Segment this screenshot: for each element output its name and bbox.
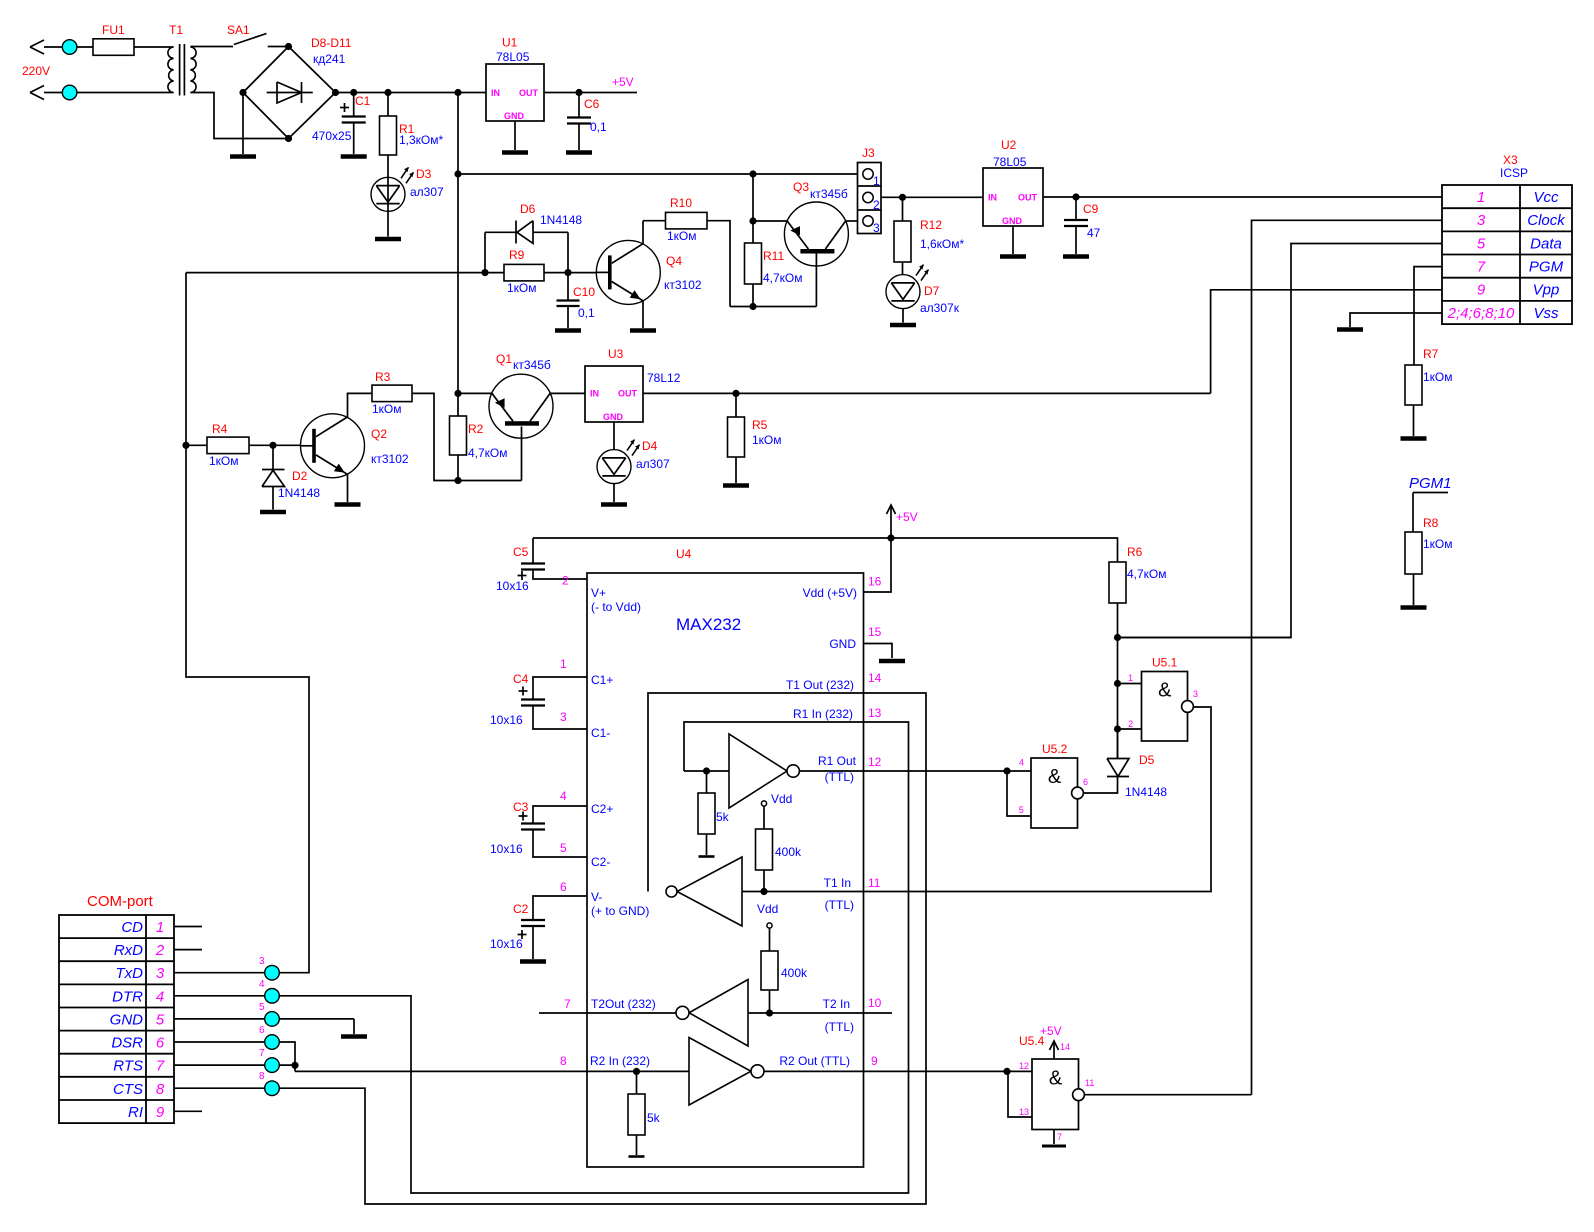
- svg-text:470x25: 470x25: [312, 129, 352, 143]
- svg-text:OUT: OUT: [519, 88, 539, 98]
- svg-text:IN: IN: [988, 192, 997, 202]
- svg-text:ICSP: ICSP: [1500, 166, 1528, 180]
- svg-text:2: 2: [1128, 719, 1133, 729]
- svg-text:GND: GND: [603, 412, 624, 422]
- svg-text:+5V: +5V: [896, 510, 918, 524]
- svg-text:DTR: DTR: [112, 988, 143, 1005]
- svg-text:12: 12: [868, 755, 882, 769]
- svg-text:6: 6: [156, 1035, 165, 1052]
- svg-text:кт3102: кт3102: [371, 452, 409, 466]
- svg-text:1кОм: 1кОм: [372, 402, 402, 416]
- svg-text:C1+: C1+: [591, 673, 613, 687]
- svg-text:GND: GND: [504, 111, 525, 121]
- svg-text:12: 12: [1019, 1061, 1029, 1071]
- svg-text:4,7кОм: 4,7кОм: [1127, 567, 1167, 581]
- svg-text:CTS: CTS: [113, 1081, 143, 1098]
- svg-text:RTS: RTS: [113, 1058, 143, 1075]
- svg-text:10x16: 10x16: [490, 842, 523, 856]
- svg-text:+5V: +5V: [1040, 1024, 1062, 1038]
- svg-text:C5: C5: [513, 545, 529, 559]
- svg-text:PGM: PGM: [1529, 259, 1564, 276]
- svg-text:COM-port: COM-port: [87, 893, 154, 910]
- svg-text:U5.2: U5.2: [1042, 742, 1068, 756]
- svg-text:4,7кОм: 4,7кОм: [763, 271, 803, 285]
- svg-text:3: 3: [156, 965, 165, 982]
- svg-text:Vdd: Vdd: [771, 792, 792, 806]
- svg-text:R7: R7: [1423, 347, 1439, 361]
- svg-text:C2-: C2-: [591, 855, 610, 869]
- svg-text:1N4148: 1N4148: [1125, 785, 1167, 799]
- svg-text:1кОм: 1кОм: [1423, 370, 1453, 384]
- svg-text:T1: T1: [169, 23, 183, 37]
- svg-text:+5V: +5V: [612, 75, 634, 89]
- svg-text:1: 1: [1477, 189, 1485, 206]
- svg-text:2: 2: [155, 942, 165, 959]
- svg-text:11: 11: [868, 876, 881, 890]
- svg-text:1N4148: 1N4148: [278, 486, 320, 500]
- svg-text:T2Out (232): T2Out (232): [591, 997, 656, 1011]
- svg-text:OUT: OUT: [1018, 192, 1038, 202]
- svg-text:SA1: SA1: [227, 23, 250, 37]
- svg-text:&: &: [1048, 766, 1062, 788]
- svg-text:0,1: 0,1: [590, 120, 607, 134]
- svg-text:C6: C6: [584, 97, 600, 111]
- svg-text:3: 3: [259, 956, 265, 967]
- svg-text:5: 5: [156, 1012, 165, 1029]
- svg-text:3: 3: [1477, 212, 1486, 229]
- svg-text:4: 4: [259, 979, 265, 990]
- svg-text:V+: V+: [591, 586, 606, 600]
- svg-text:GND: GND: [1002, 216, 1023, 226]
- svg-text:7: 7: [156, 1058, 165, 1075]
- svg-text:R6: R6: [1127, 545, 1143, 559]
- svg-text:C10: C10: [573, 285, 595, 299]
- svg-text:1: 1: [1128, 673, 1133, 683]
- svg-text:CD: CD: [121, 919, 143, 936]
- svg-text:V-: V-: [591, 890, 602, 904]
- svg-text:14: 14: [1060, 1042, 1070, 1052]
- svg-text:X3: X3: [1503, 153, 1518, 167]
- svg-text:R5: R5: [752, 418, 768, 432]
- svg-text:7: 7: [1057, 1132, 1062, 1142]
- svg-text:1кОм: 1кОм: [209, 454, 239, 468]
- svg-text:ал307к: ал307к: [920, 301, 960, 315]
- svg-text:78L05: 78L05: [993, 155, 1027, 169]
- svg-text:Vss: Vss: [1533, 305, 1559, 322]
- svg-text:D3: D3: [416, 167, 432, 181]
- svg-text:PGM1: PGM1: [1409, 475, 1452, 492]
- svg-text:D5: D5: [1139, 753, 1155, 767]
- svg-text:FU1: FU1: [102, 23, 125, 37]
- svg-text:13: 13: [868, 706, 882, 720]
- svg-text:OUT: OUT: [618, 388, 638, 398]
- svg-text:C3: C3: [513, 800, 529, 814]
- svg-text:R9: R9: [509, 248, 525, 262]
- svg-text:GND: GND: [110, 1012, 144, 1029]
- svg-text:D8-D11: D8-D11: [311, 36, 352, 50]
- svg-text:400k: 400k: [781, 966, 808, 980]
- svg-text:11: 11: [1085, 1078, 1094, 1088]
- svg-text:R8: R8: [1423, 516, 1439, 530]
- svg-text:0,1: 0,1: [578, 306, 595, 320]
- svg-text:4: 4: [156, 988, 164, 1005]
- svg-text:6: 6: [1083, 777, 1088, 787]
- svg-text:10: 10: [868, 996, 882, 1010]
- svg-text:(- to Vdd): (- to Vdd): [591, 600, 641, 614]
- svg-text:C2: C2: [513, 902, 529, 916]
- svg-text:GND: GND: [829, 637, 856, 651]
- svg-text:D6: D6: [520, 202, 536, 216]
- svg-text:78L05: 78L05: [496, 50, 530, 64]
- svg-text:RI: RI: [128, 1104, 143, 1121]
- svg-text:14: 14: [868, 671, 882, 685]
- svg-text:1кОм: 1кОм: [1423, 537, 1453, 551]
- svg-text:1: 1: [560, 657, 567, 671]
- svg-text:C1-: C1-: [591, 726, 610, 740]
- svg-text:D7: D7: [924, 284, 940, 298]
- svg-text:(TTL): (TTL): [825, 1020, 854, 1034]
- svg-text:4: 4: [1019, 758, 1024, 768]
- svg-text:R12: R12: [920, 218, 942, 232]
- svg-text:R1 Out: R1 Out: [818, 754, 857, 768]
- svg-text:3: 3: [560, 710, 567, 724]
- svg-text:7: 7: [259, 1048, 265, 1059]
- svg-text:Clock: Clock: [1527, 212, 1566, 229]
- svg-text:4: 4: [560, 789, 567, 803]
- svg-text:8: 8: [259, 1071, 265, 1082]
- svg-text:10x16: 10x16: [490, 713, 523, 727]
- svg-text:(TTL): (TTL): [825, 770, 854, 784]
- svg-text:7: 7: [564, 997, 571, 1011]
- svg-text:8: 8: [560, 1054, 567, 1068]
- svg-text:T2 In: T2 In: [823, 997, 850, 1011]
- svg-text:Vdd (+5V): Vdd (+5V): [803, 586, 857, 600]
- svg-text:R2 Out (TTL): R2 Out (TTL): [779, 1054, 850, 1068]
- svg-text:5: 5: [259, 1002, 265, 1013]
- svg-text:ал307: ал307: [636, 457, 670, 471]
- svg-text:U5.1: U5.1: [1152, 656, 1178, 670]
- svg-text:9: 9: [871, 1054, 878, 1068]
- svg-text:78L12: 78L12: [647, 371, 681, 385]
- svg-text:2: 2: [562, 574, 569, 588]
- svg-text:Q3: Q3: [793, 180, 809, 194]
- svg-text:5: 5: [1019, 805, 1024, 815]
- svg-text:C2+: C2+: [591, 802, 613, 816]
- svg-text:9: 9: [1477, 282, 1486, 299]
- svg-text:13: 13: [1019, 1107, 1029, 1117]
- svg-text:400k: 400k: [775, 845, 802, 859]
- svg-text:1: 1: [156, 919, 164, 936]
- svg-text:220V: 220V: [22, 64, 50, 78]
- svg-text:Q4: Q4: [666, 254, 682, 268]
- svg-text:7: 7: [1477, 259, 1486, 276]
- svg-text:R4: R4: [212, 422, 228, 436]
- svg-text:ал307: ал307: [410, 185, 444, 199]
- svg-text:J3: J3: [862, 146, 875, 160]
- svg-text:U3: U3: [608, 347, 624, 361]
- svg-text:1: 1: [873, 174, 880, 188]
- svg-text:T1 Out (232): T1 Out (232): [786, 678, 854, 692]
- svg-text:5: 5: [1477, 235, 1486, 252]
- svg-text:1N4148: 1N4148: [540, 213, 582, 227]
- svg-text:кд241: кд241: [313, 52, 346, 66]
- svg-text:6: 6: [259, 1025, 265, 1036]
- svg-text:3: 3: [1193, 689, 1198, 699]
- svg-text:2: 2: [873, 198, 880, 212]
- svg-text:TxD: TxD: [116, 965, 144, 982]
- svg-text:8: 8: [156, 1081, 165, 1098]
- svg-text:(TTL): (TTL): [825, 898, 854, 912]
- svg-text:Vdd: Vdd: [757, 902, 778, 916]
- svg-text:кт345б: кт345б: [513, 358, 551, 372]
- svg-text:IN: IN: [590, 388, 599, 398]
- svg-text:D2: D2: [292, 469, 308, 483]
- svg-text:U1: U1: [502, 36, 518, 50]
- svg-text:10x16: 10x16: [490, 937, 523, 951]
- svg-text:C4: C4: [513, 672, 529, 686]
- svg-text:3: 3: [873, 221, 880, 235]
- svg-text:16: 16: [868, 575, 882, 589]
- svg-text:Q1: Q1: [496, 352, 512, 366]
- svg-text:10x16: 10x16: [496, 579, 529, 593]
- svg-text:(+ to GND): (+ to GND): [591, 904, 649, 918]
- svg-text:C9: C9: [1083, 202, 1099, 216]
- svg-text:R2: R2: [468, 422, 484, 436]
- svg-text:кт345б: кт345б: [810, 187, 848, 201]
- svg-text:R11: R11: [763, 249, 784, 263]
- svg-text:1кОм: 1кОм: [752, 433, 782, 447]
- svg-text:&: &: [1158, 680, 1172, 702]
- svg-text:9: 9: [156, 1104, 165, 1121]
- svg-text:5k: 5k: [716, 810, 730, 824]
- svg-text:DSR: DSR: [111, 1035, 143, 1052]
- svg-text:2;4;6;8;10: 2;4;6;8;10: [1447, 305, 1515, 322]
- svg-text:R2 In (232): R2 In (232): [590, 1054, 650, 1068]
- svg-text:Q2: Q2: [371, 427, 387, 441]
- svg-text:1,3кОм*: 1,3кОм*: [399, 133, 444, 147]
- svg-text:кт3102: кт3102: [664, 278, 702, 292]
- svg-text:6: 6: [560, 880, 567, 894]
- svg-text:R3: R3: [375, 370, 391, 384]
- svg-text:IN: IN: [491, 88, 500, 98]
- svg-text:C1: C1: [355, 94, 371, 108]
- svg-text:R10: R10: [670, 196, 692, 210]
- svg-text:Data: Data: [1530, 235, 1562, 252]
- svg-text:15: 15: [868, 625, 882, 639]
- svg-text:MAX232: MAX232: [676, 615, 741, 634]
- svg-text:1,6кОм*: 1,6кОм*: [920, 237, 965, 251]
- svg-text:U4: U4: [676, 547, 692, 561]
- svg-text:T1 In: T1 In: [824, 876, 851, 890]
- svg-text:Vcc: Vcc: [1533, 189, 1559, 206]
- svg-text:U2: U2: [1001, 138, 1017, 152]
- svg-text:4,7кОм: 4,7кОм: [468, 446, 508, 460]
- svg-text:1кОм: 1кОм: [507, 281, 537, 295]
- svg-text:&: &: [1049, 1068, 1063, 1090]
- svg-text:47: 47: [1087, 226, 1101, 240]
- svg-text:Vpp: Vpp: [1533, 282, 1560, 299]
- svg-text:R1 In (232): R1 In (232): [793, 707, 853, 721]
- svg-text:1кОм: 1кОм: [667, 229, 697, 243]
- svg-text:RxD: RxD: [114, 942, 143, 959]
- svg-text:D4: D4: [642, 439, 658, 453]
- svg-text:5: 5: [560, 841, 567, 855]
- svg-text:5k: 5k: [647, 1111, 661, 1125]
